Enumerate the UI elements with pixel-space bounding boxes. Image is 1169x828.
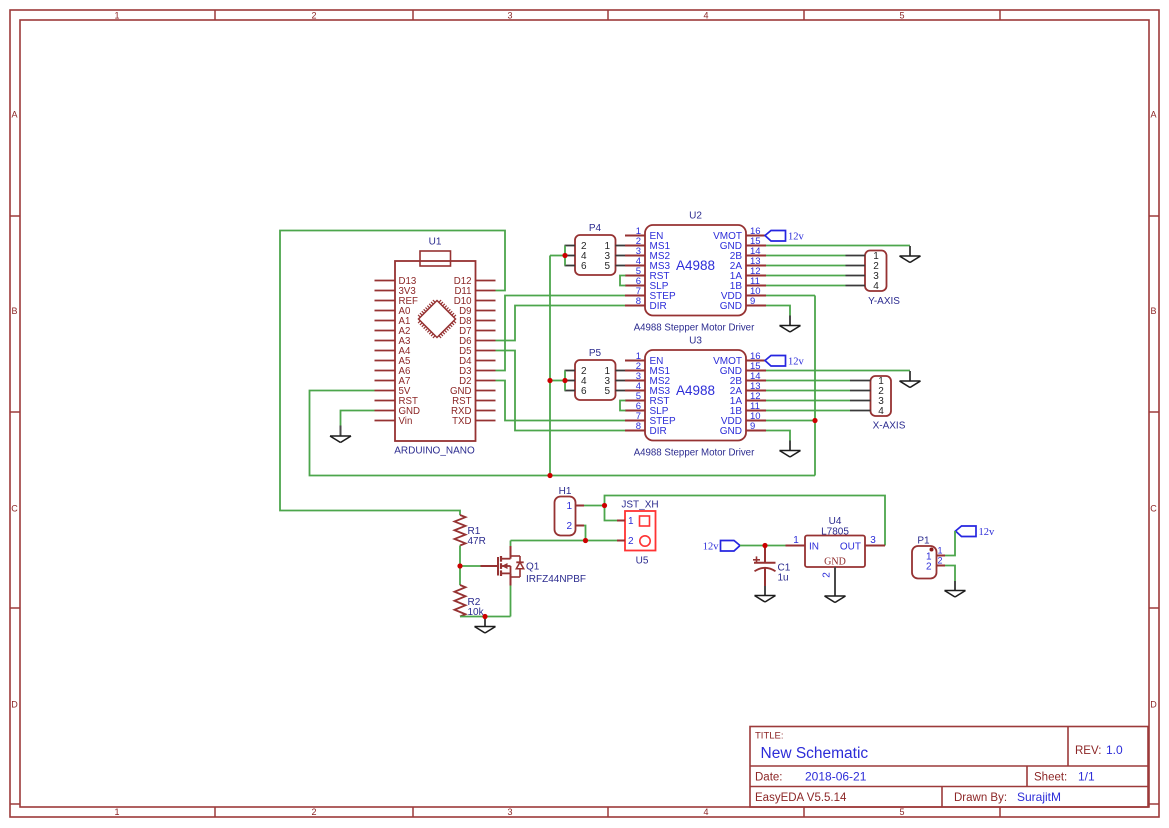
node JST pin2 junction bbox=[583, 538, 588, 543]
svg-text:IN: IN bbox=[809, 541, 819, 552]
svg-text:Y-AXIS: Y-AXIS bbox=[868, 296, 900, 307]
ground below P1 bbox=[945, 581, 966, 597]
wire U3 2B/2A/1A/1B to X-AXIS bbox=[766, 381, 850, 411]
ground below C1 bbox=[755, 586, 776, 602]
svg-text:1: 1 bbox=[566, 501, 572, 512]
node P4 jumper junction bbox=[562, 253, 567, 258]
svg-text:5: 5 bbox=[604, 386, 610, 397]
connector P4 2x3 header bbox=[565, 223, 626, 275]
wire P5 jumper link bbox=[550, 380, 565, 382]
svg-text:REV:: REV: bbox=[1075, 745, 1101, 757]
wire D11 to top rail bbox=[280, 231, 505, 516]
svg-text:GND: GND bbox=[720, 301, 742, 312]
svg-text:D: D bbox=[11, 700, 18, 710]
svg-text:6: 6 bbox=[581, 386, 587, 397]
node ground junction bbox=[482, 614, 487, 619]
svg-text:1: 1 bbox=[114, 807, 119, 817]
wire U2 VDD bbox=[766, 295, 815, 297]
wire P1 pin2 to ground bbox=[945, 566, 955, 582]
svg-text:A4988: A4988 bbox=[676, 258, 715, 273]
svg-text:C: C bbox=[11, 504, 18, 514]
ground at Y-AXIS bbox=[900, 246, 921, 263]
wire node to U4 OUT bbox=[605, 496, 886, 546]
svg-text:1/1: 1/1 bbox=[1078, 770, 1095, 784]
ground below R2 bbox=[475, 617, 496, 634]
svg-text:12v: 12v bbox=[788, 356, 805, 367]
wire U3 pin15 GND bbox=[766, 370, 910, 372]
wire VDD riser bbox=[814, 296, 816, 476]
svg-text:DIR: DIR bbox=[650, 426, 667, 437]
connector H1 2-pin header bbox=[555, 486, 585, 536]
svg-text:1: 1 bbox=[628, 516, 634, 527]
svg-text:4: 4 bbox=[878, 406, 884, 417]
ground U4 pin2 bbox=[825, 567, 846, 603]
svg-text:EasyEDA V5.5.14: EasyEDA V5.5.14 bbox=[755, 792, 847, 804]
svg-text:GND: GND bbox=[824, 556, 846, 567]
connector U5 JST_XH bbox=[617, 500, 659, 567]
connector P5 2x3 header bbox=[565, 348, 626, 400]
ground at X-AXIS bbox=[900, 371, 921, 388]
wire drain rail to JST pin2 bbox=[511, 540, 618, 542]
svg-text:12v: 12v bbox=[703, 541, 720, 552]
wire U2 pin9 GND bbox=[766, 306, 790, 317]
wire R1 to gate node bbox=[459, 546, 461, 567]
wire P5 pins 2-4-6 jumper bbox=[564, 371, 566, 391]
svg-text:4: 4 bbox=[703, 11, 708, 21]
power flag 12v at U2 pin16 bbox=[765, 231, 805, 243]
svg-text:A4988: A4988 bbox=[676, 383, 715, 398]
svg-text:A: A bbox=[11, 110, 17, 120]
node riser-P5 junction bbox=[547, 378, 552, 383]
svg-text:9: 9 bbox=[750, 296, 755, 307]
connector P1 2-pin bbox=[912, 536, 945, 579]
svg-text:2: 2 bbox=[926, 562, 932, 573]
svg-text:C: C bbox=[1150, 504, 1157, 514]
wire D5 to U3 DIR bbox=[496, 351, 626, 431]
svg-text:D: D bbox=[1150, 700, 1157, 710]
ground below arduino bbox=[330, 426, 351, 443]
svg-text:SurajitM: SurajitM bbox=[1017, 790, 1061, 804]
svg-text:Sheet:: Sheet: bbox=[1034, 772, 1067, 784]
connector Y-AXIS 4-pin bbox=[846, 251, 901, 308]
svg-text:Q1: Q1 bbox=[526, 562, 540, 573]
svg-text:IRFZ44NPBF: IRFZ44NPBF bbox=[526, 574, 586, 585]
ground below U3 bbox=[780, 441, 801, 458]
svg-text:4: 4 bbox=[703, 807, 708, 817]
capacitor C1 1u bbox=[753, 546, 791, 587]
power flag 12v at U3 pin16 bbox=[765, 356, 805, 368]
wire U2 2B/2A/1A/1B to Y-AXIS bbox=[766, 256, 846, 286]
svg-text:ARDUINO_NANO: ARDUINO_NANO bbox=[394, 446, 475, 457]
svg-text:P4: P4 bbox=[589, 223, 602, 234]
wire U3 VDD bbox=[766, 420, 815, 422]
wire D2 to U3 STEP bbox=[496, 381, 626, 421]
resistor R1 47R bbox=[455, 515, 486, 547]
svg-text:3: 3 bbox=[507, 11, 512, 21]
svg-text:9: 9 bbox=[750, 421, 755, 432]
svg-text:5: 5 bbox=[604, 261, 610, 272]
svg-text:1u: 1u bbox=[778, 572, 789, 583]
resistor R2 10k bbox=[455, 566, 485, 618]
svg-text:Drawn By:: Drawn By: bbox=[954, 792, 1007, 804]
node U3 VDD junction bbox=[812, 418, 817, 423]
wire U2 pin15 GND bbox=[766, 245, 910, 247]
svg-text:B: B bbox=[11, 306, 17, 316]
svg-text:8: 8 bbox=[636, 421, 641, 432]
wire MS jumper riser bbox=[549, 256, 551, 476]
svg-text:47R: 47R bbox=[468, 536, 486, 547]
svg-text:2: 2 bbox=[311, 11, 316, 21]
svg-text:U5: U5 bbox=[636, 556, 649, 567]
svg-text:L7805: L7805 bbox=[821, 527, 849, 538]
wire gate node to Q1 bbox=[460, 565, 481, 567]
op-amp U2 A4988 stepper driver bbox=[625, 211, 766, 334]
wire source rail bbox=[460, 616, 511, 618]
svg-text:P5: P5 bbox=[589, 348, 602, 359]
wire U3 pin9 GND bbox=[766, 431, 790, 442]
svg-text:TITLE:: TITLE: bbox=[755, 731, 784, 742]
wire U2 RST-SLP jumper bbox=[620, 276, 626, 286]
wire H1 pin1 net bbox=[584, 505, 605, 507]
arduino U1 bbox=[375, 237, 496, 457]
regulator U4 L7805 bbox=[786, 516, 886, 578]
wire U3 RST-SLP jumper bbox=[620, 401, 626, 411]
svg-text:H1: H1 bbox=[559, 486, 572, 497]
svg-text:2: 2 bbox=[566, 521, 572, 532]
wire P4 pins 2-4-6 jumper bbox=[564, 246, 566, 266]
svg-text:OUT: OUT bbox=[840, 541, 861, 552]
node C1 junction bbox=[762, 543, 767, 548]
svg-text:B: B bbox=[1150, 306, 1156, 316]
svg-text:1: 1 bbox=[793, 535, 799, 546]
svg-text:U4: U4 bbox=[829, 516, 842, 527]
svg-text:2: 2 bbox=[938, 556, 943, 566]
svg-text:1: 1 bbox=[938, 546, 943, 556]
svg-text:A: A bbox=[1150, 110, 1156, 120]
wire 5V rail bbox=[310, 391, 816, 476]
svg-text:X-AXIS: X-AXIS bbox=[873, 421, 906, 432]
svg-text:DIR: DIR bbox=[650, 301, 667, 312]
svg-text:2: 2 bbox=[311, 807, 316, 817]
svg-text:8: 8 bbox=[636, 296, 641, 307]
wire Q1 drain up bbox=[510, 541, 512, 547]
node 5V rail junction bbox=[547, 473, 552, 478]
title block bbox=[750, 727, 1148, 808]
svg-text:5: 5 bbox=[899, 807, 904, 817]
svg-text:6: 6 bbox=[581, 261, 587, 272]
wire Q1 source down bbox=[510, 586, 512, 617]
svg-text:Date:: Date: bbox=[755, 772, 783, 784]
power flag 12v at P1 bbox=[956, 526, 996, 538]
svg-text:3: 3 bbox=[507, 807, 512, 817]
wire P4 jumper link bbox=[550, 255, 565, 257]
svg-text:3: 3 bbox=[870, 535, 876, 546]
wire arduino GND to ground bbox=[341, 411, 375, 427]
svg-text:U3: U3 bbox=[689, 336, 702, 347]
op-amp U3 A4988 stepper driver bbox=[625, 336, 766, 459]
svg-text:1: 1 bbox=[114, 11, 119, 21]
svg-text:5: 5 bbox=[899, 11, 904, 21]
svg-text:A4988 Stepper Motor Driver: A4988 Stepper Motor Driver bbox=[634, 323, 755, 334]
svg-text:New Schematic: New Schematic bbox=[761, 745, 869, 762]
svg-text:2018-06-21: 2018-06-21 bbox=[805, 770, 867, 784]
svg-text:2: 2 bbox=[628, 536, 634, 547]
svg-text:JST_XH: JST_XH bbox=[621, 500, 658, 511]
node H1 pin1 junction bbox=[602, 503, 607, 508]
ground below U2 bbox=[780, 316, 801, 333]
svg-text:U2: U2 bbox=[689, 211, 702, 222]
wire node to JST pin1 bbox=[605, 506, 618, 521]
svg-text:Vin: Vin bbox=[399, 416, 413, 427]
svg-text:4: 4 bbox=[873, 281, 879, 292]
svg-text:A4988 Stepper Motor Driver: A4988 Stepper Motor Driver bbox=[634, 448, 755, 459]
svg-text:12v: 12v bbox=[788, 231, 805, 242]
svg-text:1.0: 1.0 bbox=[1106, 743, 1123, 757]
svg-text:GND: GND bbox=[720, 426, 742, 437]
wire D3 to U2 STEP bbox=[496, 296, 626, 371]
svg-text:TXD: TXD bbox=[452, 416, 471, 427]
wire P1 pin1 to 12v bbox=[945, 531, 955, 556]
svg-text:U1: U1 bbox=[429, 237, 442, 248]
node gate junction bbox=[457, 563, 462, 568]
svg-text:2: 2 bbox=[822, 572, 833, 578]
svg-text:P1: P1 bbox=[917, 536, 930, 547]
power flag 12v at U4 IN bbox=[703, 541, 740, 553]
wire 12v to U4 IN bbox=[740, 545, 786, 547]
connector X-AXIS 4-pin bbox=[850, 376, 906, 432]
svg-text:12v: 12v bbox=[979, 527, 996, 538]
wire D6 to U2 DIR bbox=[496, 306, 626, 341]
wire H1 pin2 down bbox=[584, 526, 586, 541]
node P5 jumper junction bbox=[562, 378, 567, 383]
transistor Q1 IRFZ44NPBF bbox=[481, 546, 587, 586]
